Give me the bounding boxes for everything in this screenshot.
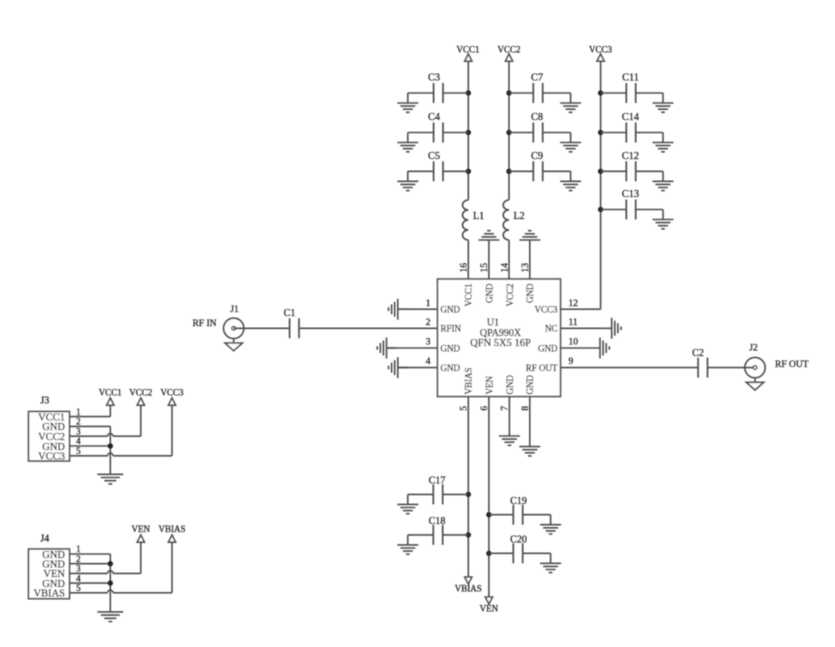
svg-text:C3: C3 <box>428 73 440 84</box>
svg-text:RF IN: RF IN <box>192 319 216 329</box>
svg-text:GND: GND <box>525 375 535 395</box>
svg-text:VCC3: VCC3 <box>534 305 558 315</box>
svg-text:VBIAS: VBIAS <box>33 589 65 600</box>
svg-text:NC: NC <box>545 324 558 334</box>
svg-text:VCC2: VCC2 <box>129 388 152 398</box>
svg-text:3: 3 <box>426 338 431 348</box>
svg-text:1: 1 <box>76 407 81 417</box>
svg-text:C12: C12 <box>622 151 639 162</box>
svg-text:GND: GND <box>441 363 461 373</box>
svg-text:C5: C5 <box>428 151 440 162</box>
svg-text:VEN: VEN <box>132 524 151 534</box>
svg-text:C8: C8 <box>531 112 543 123</box>
svg-text:14: 14 <box>501 263 511 273</box>
svg-text:C4: C4 <box>428 112 440 123</box>
svg-text:C1: C1 <box>284 308 296 319</box>
svg-text:2: 2 <box>76 554 81 564</box>
svg-text:C2: C2 <box>692 348 704 359</box>
svg-text:C20: C20 <box>510 535 527 546</box>
svg-text:VCC1: VCC1 <box>99 388 122 398</box>
svg-text:VCC3: VCC3 <box>160 388 184 398</box>
svg-text:GND: GND <box>441 305 461 315</box>
svg-text:1: 1 <box>426 299 431 309</box>
svg-text:C17: C17 <box>429 476 446 487</box>
svg-text:VBIAS: VBIAS <box>158 524 185 534</box>
svg-text:13: 13 <box>521 263 531 273</box>
svg-text:C7: C7 <box>531 73 543 84</box>
svg-text:5: 5 <box>76 583 81 593</box>
svg-text:3: 3 <box>76 564 81 574</box>
svg-text:GND: GND <box>525 283 535 303</box>
svg-text:VCC2: VCC2 <box>505 284 515 307</box>
svg-text:C18: C18 <box>429 516 446 527</box>
svg-text:9: 9 <box>569 357 574 367</box>
svg-text:U1: U1 <box>487 318 499 329</box>
svg-text:C13: C13 <box>622 189 639 200</box>
svg-text:1: 1 <box>76 544 81 554</box>
svg-text:GND: GND <box>484 283 494 303</box>
svg-text:4: 4 <box>76 573 81 583</box>
svg-text:VEN: VEN <box>484 376 494 395</box>
svg-text:J1: J1 <box>230 305 239 315</box>
svg-text:GND: GND <box>538 343 558 353</box>
svg-text:10: 10 <box>569 338 579 348</box>
svg-text:RF OUT: RF OUT <box>775 360 809 370</box>
svg-text:RFIN: RFIN <box>441 324 462 334</box>
svg-text:11: 11 <box>569 318 578 328</box>
svg-text:VBIAS: VBIAS <box>464 367 474 394</box>
svg-text:2: 2 <box>76 417 81 427</box>
svg-text:J2: J2 <box>749 343 758 353</box>
svg-text:C14: C14 <box>622 112 639 123</box>
svg-text:C19: C19 <box>510 496 527 507</box>
svg-text:4: 4 <box>426 357 431 367</box>
svg-text:12: 12 <box>569 299 579 309</box>
svg-text:L2: L2 <box>514 211 525 222</box>
svg-text:J4: J4 <box>40 534 49 545</box>
svg-text:J3: J3 <box>40 396 49 407</box>
svg-text:16: 16 <box>460 263 470 273</box>
svg-text:5: 5 <box>76 446 81 456</box>
svg-text:L1: L1 <box>473 211 484 222</box>
svg-text:C11: C11 <box>622 73 639 84</box>
svg-text:4: 4 <box>76 436 81 446</box>
svg-text:VEN: VEN <box>480 604 499 614</box>
svg-text:QFN 5X5 16P: QFN 5X5 16P <box>470 338 531 349</box>
svg-text:3: 3 <box>76 426 81 436</box>
svg-text:GND: GND <box>505 375 515 395</box>
svg-text:VCC3: VCC3 <box>38 452 65 463</box>
svg-text:GND: GND <box>441 343 461 353</box>
svg-text:VBIAS: VBIAS <box>455 584 482 594</box>
svg-text:C9: C9 <box>531 151 543 162</box>
svg-text:15: 15 <box>480 263 490 273</box>
svg-text:2: 2 <box>426 318 431 328</box>
svg-text:RF OUT: RF OUT <box>526 363 558 373</box>
svg-text:VCC1: VCC1 <box>464 284 474 307</box>
